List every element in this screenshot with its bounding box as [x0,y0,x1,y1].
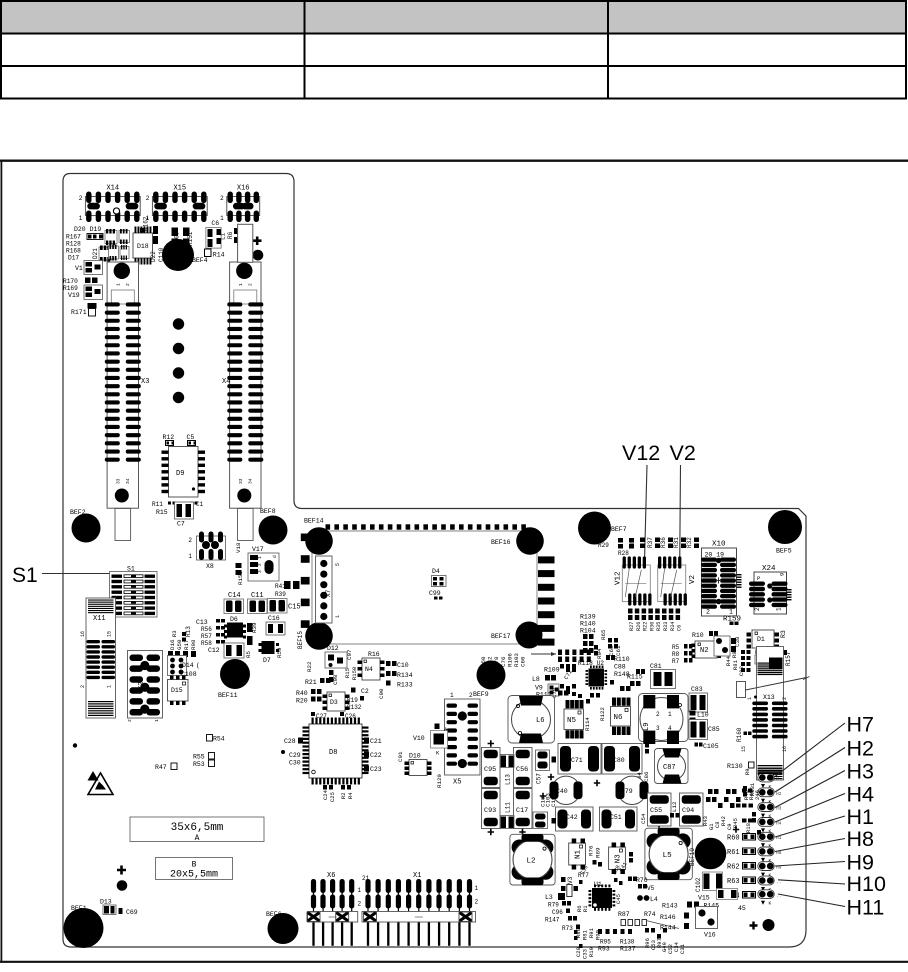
svg-text:K: K [769,901,772,907]
svg-text:C24: C24 [322,789,329,800]
svg-text:1: 1 [729,609,733,616]
svg-text:R170: R170 [63,278,78,285]
svg-text:R5: R5 [245,651,252,658]
IC D19 [105,231,117,244]
svg-text:R30: R30 [649,622,655,631]
svg-text:R18: R18 [745,823,752,833]
module top castellation pads [326,524,526,529]
svg-text:BEF14: BEF14 [304,518,324,525]
svg-text:R138: R138 [620,939,635,946]
svg-text:X1: X1 [413,872,421,880]
diode D14 [168,656,187,676]
connector X2 [127,651,163,723]
svg-text:P: P [757,575,760,582]
fiducial BEF5 [768,510,802,544]
capacitor C19 bottom [533,812,548,829]
parts row [168,651,173,657]
svg-text:R93: R93 [598,946,610,953]
capacitor C71 [558,744,601,775]
inductor L9 [639,694,689,745]
svg-text:C105: C105 [703,743,719,750]
svg-text:15: 15 [107,631,113,637]
svg-text:BEF15: BEF15 [297,631,304,649]
svg-text:R110: R110 [614,656,630,663]
svg-text:R143: R143 [662,903,678,910]
svg-text:R87: R87 [618,911,630,918]
svg-text:1: 1 [220,215,224,222]
svg-text:R140: R140 [580,621,596,628]
connector X3 [105,262,150,541]
svg-text:C51: C51 [610,814,622,821]
svg-text:R146: R146 [660,914,676,921]
svg-text:C21: C21 [370,738,382,745]
svg-text:1: 1 [257,556,263,559]
capacitor C7 [175,502,194,519]
svg-text:D8: D8 [329,749,337,757]
svg-text:2: 2 [79,195,83,202]
inductor L13 [501,755,515,768]
connector X7 [316,556,342,623]
svg-text:C26: C26 [345,713,356,720]
svg-text:R14: R14 [213,252,225,259]
svg-text:V2: V2 [670,441,696,465]
circle mark on X14 [113,208,119,214]
dimension box A [130,817,264,842]
svg-text:BEF4: BEF4 [192,257,208,264]
svg-text:C29: C29 [289,752,301,759]
svg-text:C54: C54 [640,813,647,824]
svg-text:D1: D1 [757,636,765,643]
svg-text:X13: X13 [763,694,775,701]
svg-text:R3: R3 [171,630,178,637]
svg-text:C5: C5 [187,434,195,441]
svg-text:1: 1 [115,283,121,286]
svg-text:R57: R57 [201,633,212,640]
fiducial BEF11 [220,659,250,689]
svg-text:B: B [192,861,197,870]
svg-text:2: 2 [188,537,192,544]
svg-text:C56: C56 [516,766,528,774]
plus mark [253,237,262,246]
svg-text:V15: V15 [698,895,710,902]
leader line V2 [680,465,681,591]
capacitor C94 [680,793,704,826]
leader line V12 [644,465,647,581]
fiducial BEF10 [695,838,727,870]
svg-text:R21: R21 [305,679,317,686]
svg-text:R115: R115 [627,674,643,681]
capacitor C80 [602,744,642,775]
svg-text:C69: C69 [126,909,138,916]
svg-text:A: A [195,834,200,843]
fiducial BEF1 [64,908,104,948]
RF module outline [312,531,537,644]
svg-text:R139: R139 [580,614,596,621]
svg-text:1: 1 [668,711,672,718]
leader line H10 [778,880,845,884]
IC D20 [119,231,130,243]
svg-text:X2: X2 [138,682,146,690]
svg-text:C107: C107 [550,793,557,807]
svg-text:..: .. [776,880,781,885]
svg-text:V1: V1 [75,265,83,272]
svg-text:BEF7: BEF7 [611,526,627,533]
svg-text:R56: R56 [201,626,212,633]
parts left of LEDs [742,789,747,793]
IC D15 [168,676,189,706]
IC N1 [569,839,586,870]
svg-text:D13: D13 [100,899,112,906]
svg-text:X16: X16 [237,185,250,193]
svg-text:L2: L2 [527,858,536,866]
svg-text:C18: C18 [540,796,547,807]
svg-text:R1: R1 [582,905,589,912]
dimension box B [156,858,233,880]
svg-text:C71: C71 [571,757,583,764]
table header row [0,0,908,99]
small parts around U2 [566,668,570,672]
svg-text:D10: D10 [409,753,421,760]
svg-text:R4: R4 [347,792,354,799]
svg-text:V3: V3 [567,876,574,884]
leader line H9 [775,862,845,867]
IC N2 [695,641,717,658]
svg-text:R58: R58 [201,640,212,647]
svg-text:C12: C12 [208,647,220,654]
svg-text:R168: R168 [66,248,81,255]
capacitor C85 [689,720,708,740]
svg-text:2: 2 [469,692,473,699]
svg-text:V17: V17 [252,546,264,553]
capacitor C11 [248,599,268,614]
svg-text:R62: R62 [727,864,740,872]
svg-text:D21: D21 [92,248,99,259]
svg-text:R73: R73 [562,925,573,932]
svg-text:R95: R95 [600,939,611,946]
svg-text:X5: X5 [453,779,461,787]
svg-text:R104: R104 [580,628,596,635]
svg-text:5: 5 [335,563,341,566]
svg-text:BEF2: BEF2 [70,509,86,516]
svg-text:R10: R10 [692,632,704,639]
connector X15 [146,185,208,223]
svg-text:C22: C22 [370,752,382,759]
dot [73,743,77,747]
svg-text:2: 2 [146,195,150,202]
resistors R27 R25 R30 R35 R33 R34 cluster [628,609,633,614]
svg-text:34: 34 [247,478,253,484]
svg-text:BEF16: BEF16 [491,539,511,546]
IC D8 [303,718,369,785]
svg-text:R29: R29 [598,542,609,549]
svg-text:S1: S1 [12,564,38,587]
svg-text:R130: R130 [727,763,743,770]
svg-text:C13: C13 [196,619,208,626]
svg-text:H3: H3 [847,760,875,784]
svg-text:D4: D4 [432,568,440,575]
svg-text:R40: R40 [296,690,308,697]
part with leader to edge [737,682,746,698]
svg-text:BEF8: BEF8 [260,508,276,515]
diode D7 [262,641,275,654]
svg-text:C93: C93 [484,807,496,815]
fiducial BEF4 [162,239,194,271]
svg-text:R2: R2 [340,792,347,799]
svg-text:X7: X7 [325,589,332,597]
svg-text:C87: C87 [663,764,676,772]
svg-text:V12: V12 [615,571,623,585]
svg-text:C85: C85 [708,726,720,733]
fiducial BEF15 [305,622,333,650]
svg-text:R53: R53 [193,761,205,768]
svg-text:H9: H9 [847,851,874,875]
svg-text:R5: R5 [672,644,680,651]
svg-text:L9: L9 [643,723,651,731]
svg-text:D9: D9 [176,470,184,478]
svg-text:C80: C80 [613,757,625,764]
svg-text:C27: C27 [316,713,327,720]
connector X11 [80,598,116,718]
svg-text:R19: R19 [347,697,358,704]
IC D3 [323,692,350,711]
arrow to resistor row [531,653,556,655]
drawing frame [0,159,908,161]
svg-text:2: 2 [127,719,133,722]
svg-text:L12: L12 [671,801,678,812]
svg-text:R76: R76 [588,845,595,856]
svg-text:N6: N6 [614,714,624,722]
svg-text:R28: R28 [618,550,629,557]
svg-text:L8: L8 [532,676,540,683]
svg-text:C91: C91 [397,751,404,762]
fiducial BEF16 [516,527,544,555]
leader line S1 [42,573,126,575]
LED pads column [758,773,774,907]
svg-text:R133: R133 [397,682,413,689]
svg-text:R22: R22 [306,661,313,672]
leader line H8 [775,839,845,852]
IC N3 [609,843,626,875]
svg-text:2: 2 [80,685,86,688]
svg-text:2: 2 [247,283,253,286]
leader line H1 [775,816,845,837]
parts near R18 [752,812,756,817]
capacitor C17 [514,789,533,829]
svg-text:R7: R7 [672,658,680,665]
svg-text:V9: V9 [535,685,543,692]
svg-text:X15: X15 [173,185,186,193]
svg-text:L3: L3 [545,894,553,901]
svg-text:H7: H7 [847,713,874,737]
svg-text:R132: R132 [347,704,362,711]
svg-text:R3: R3 [780,630,787,638]
svg-text:2: 2 [358,901,362,908]
svg-text:15: 15 [741,746,747,752]
transistor group V12 [615,556,652,605]
svg-text:R8: R8 [672,651,680,658]
connector X24 [749,565,792,614]
svg-text:16: 16 [782,746,788,752]
svg-text:20x5,5mm: 20x5,5mm [170,870,218,881]
capacitor C110 part [153,226,158,234]
svg-text:1: 1 [475,885,479,892]
svg-text:C83: C83 [691,686,703,693]
svg-text:D17: D17 [68,255,79,262]
svg-text:R98: R98 [190,639,197,650]
svg-text:V5: V5 [647,885,655,892]
svg-text:C55: C55 [650,807,662,815]
IC N6 [611,698,631,736]
resistor R151 [183,228,190,237]
svg-text:X8: X8 [206,563,214,570]
svg-text:C86: C86 [643,771,650,782]
capacitor C40 [550,776,583,804]
svg-text:1: 1 [154,719,160,722]
svg-text:C17: C17 [516,807,528,815]
svg-text:R15: R15 [156,509,168,516]
svg-text:G50: G50 [176,639,183,650]
svg-text:R134: R134 [397,672,413,679]
svg-text:2: 2 [125,283,131,286]
svg-text:R122: R122 [599,707,606,721]
capacitor C109 [172,228,179,237]
svg-text:H11: H11 [847,895,885,919]
svg-text:R6: R6 [227,231,234,239]
svg-text:X14: X14 [106,185,119,193]
svg-text:R54: R54 [213,736,225,743]
svg-text:R114: R114 [584,717,591,731]
ESD warning triangle [88,773,113,795]
svg-text:R109: R109 [544,667,560,674]
svg-text:2: 2 [220,195,224,202]
svg-text:C23: C23 [370,766,382,773]
leader line H7 [775,723,845,777]
capacitor C14 [224,599,244,614]
svg-text:R63: R63 [727,878,740,886]
resistor row under module [558,650,562,656]
svg-text:(: ( [196,662,200,669]
leader line H3 [775,771,845,808]
svg-text:H: H [776,776,779,782]
IC N5 [564,700,584,739]
IC pair [109,246,119,259]
connector X4 [222,262,263,541]
svg-text:C15: C15 [288,604,301,612]
svg-text:V12: V12 [622,441,660,465]
svg-text:L6: L6 [536,717,544,725]
svg-text:1: 1 [335,615,341,618]
svg-text:C81: C81 [650,663,662,670]
capacitor C57 [536,750,550,771]
svg-text:C45: C45 [615,894,622,904]
tooling holes between X3 X4 [173,318,184,329]
svg-text:R82: R82 [731,648,738,658]
module right castellation pads [538,556,555,645]
svg-text:R15: R15 [344,668,351,678]
parts row under R87 [621,920,626,926]
svg-text:1: 1 [79,215,83,222]
plus mark left [117,866,126,875]
fiducial BEF7 [578,512,611,545]
svg-text:2: 2 [656,711,660,718]
leader line H4 [775,794,845,823]
IC N4 [358,658,385,680]
svg-text:C25: C25 [329,792,336,802]
capacitor C42 [556,807,594,831]
fiducial BEF2 [72,514,101,543]
capacitor C93 [482,789,501,829]
fiducial BEF6 [268,913,299,944]
capacitor C105 [695,743,699,747]
connector X5 [445,692,481,787]
svg-text:L1: L1 [220,232,227,240]
leader line H2 [775,748,845,793]
svg-text:C97: C97 [346,649,353,660]
inductor L5 [645,828,692,880]
svg-text:C99: C99 [429,590,441,597]
svg-text:D16: D16 [169,639,176,650]
svg-text:C96: C96 [552,909,563,916]
svg-text:R32: R32 [686,537,693,548]
svg-text:X10: X10 [712,541,726,549]
svg-text:V10: V10 [413,735,425,742]
svg-text:2: 2 [754,607,761,611]
svg-text:BEF1: BEF1 [71,905,87,912]
svg-text:R13: R13 [185,626,192,637]
connector X4 latch [238,224,253,262]
svg-text:D20 D19: D20 D19 [74,226,101,233]
svg-text:C16: C16 [268,615,280,622]
hole [253,250,264,261]
inductor C87 [655,749,689,784]
svg-text:R27: R27 [629,622,635,631]
svg-text:V16: V16 [704,932,716,939]
svg-text:BEF6: BEF6 [266,911,282,918]
svg-text:V2: V2 [689,575,697,584]
svg-text:L11: L11 [505,802,512,813]
svg-text:C90: C90 [378,688,385,699]
svg-text:R147: R147 [545,917,560,924]
svg-text:N5: N5 [567,717,577,725]
svg-text:33: 33 [238,478,244,484]
connector X6 [307,872,358,946]
fiducial BEF17 [516,622,543,649]
svg-text:R55: R55 [193,754,205,761]
svg-text:R9: R9 [744,768,751,775]
svg-text:H2: H2 [847,736,874,760]
svg-text:R129: R129 [436,774,443,788]
svg-text:R144: R144 [660,925,676,932]
fiducial BEF9 [477,661,506,690]
X13 bottom hatch over first pad [758,765,783,774]
connector X14 [79,185,141,223]
svg-text:L4: L4 [650,896,658,903]
svg-text:C2: C2 [361,688,369,695]
svg-text:C6: C6 [677,625,683,631]
svg-text:R34: R34 [670,622,676,631]
module left castellation pads [301,534,310,628]
svg-text:C11: C11 [251,592,264,600]
svg-text:R33: R33 [663,622,669,631]
svg-text:V19: V19 [68,292,80,299]
svg-text:1: 1 [107,685,113,688]
fiducial BEF8 [259,516,288,545]
svg-text:C7: C7 [177,521,185,528]
PCB board outline [63,174,806,948]
svg-text:21: 21 [362,875,370,882]
svg-text:2: 2 [257,563,263,566]
hole left [117,880,128,891]
